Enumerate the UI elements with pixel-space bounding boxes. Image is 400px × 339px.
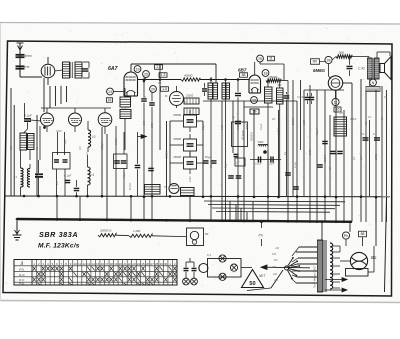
svg-text:0,25µF: 0,25µF bbox=[101, 142, 104, 150]
svg-text:25: 25 bbox=[144, 72, 148, 76]
svg-text:110: 110 bbox=[275, 247, 279, 250]
svg-text:0,1µF: 0,1µF bbox=[24, 114, 32, 118]
svg-text:50000: 50000 bbox=[115, 137, 118, 145]
svg-text:8µF: 8µF bbox=[343, 125, 346, 130]
svg-text:5000: 5000 bbox=[151, 122, 154, 128]
svg-text:25000: 25000 bbox=[324, 154, 327, 163]
svg-text:A.V.C.: A.V.C. bbox=[128, 182, 132, 191]
svg-text:18: 18 bbox=[264, 71, 268, 75]
svg-text:25000: 25000 bbox=[172, 155, 181, 159]
svg-text:17: 17 bbox=[105, 262, 109, 266]
svg-text:76: 76 bbox=[258, 57, 262, 61]
svg-text:0,1µF: 0,1µF bbox=[316, 128, 319, 135]
svg-text:19: 19 bbox=[114, 262, 118, 266]
svg-text:P.O.: P.O. bbox=[19, 267, 25, 271]
svg-text:0,1µF: 0,1µF bbox=[123, 171, 126, 178]
svg-text:aérien: aérien bbox=[23, 54, 32, 58]
svg-text:220: 220 bbox=[272, 273, 278, 276]
svg-text:P.U.: P.U. bbox=[19, 282, 25, 286]
svg-text:4Ω: 4Ω bbox=[272, 118, 275, 121]
svg-text:5000: 5000 bbox=[258, 140, 264, 144]
svg-text:Trafo Westra 50HZ: Trafo Westra 50HZ bbox=[313, 266, 317, 288]
svg-text:50000: 50000 bbox=[237, 122, 240, 130]
svg-text:0,1µm: 0,1µm bbox=[121, 105, 129, 109]
svg-text:350Ω: 350Ω bbox=[375, 154, 378, 160]
svg-text:21: 21 bbox=[123, 262, 127, 266]
svg-text:M.F. 123Kc/s: M.F. 123Kc/s bbox=[38, 243, 80, 250]
svg-text:1,3: 1,3 bbox=[161, 73, 166, 77]
svg-text:1 MΩ: 1 MΩ bbox=[133, 229, 141, 233]
svg-text:N: N bbox=[372, 81, 375, 85]
svg-text:16: 16 bbox=[108, 98, 112, 102]
svg-text:88: 88 bbox=[242, 73, 246, 77]
svg-text:RV: RV bbox=[313, 60, 318, 64]
svg-text:0,1: 0,1 bbox=[284, 151, 287, 155]
svg-text:8µF: 8µF bbox=[360, 155, 363, 160]
svg-text:50µµ: 50µµ bbox=[64, 139, 67, 145]
svg-text:G.O.: G.O. bbox=[19, 273, 26, 277]
svg-text:40000: 40000 bbox=[184, 74, 193, 78]
svg-text:0,1: 0,1 bbox=[353, 156, 356, 160]
svg-text:0,25: 0,25 bbox=[303, 120, 306, 125]
svg-text:1MΩ: 1MΩ bbox=[189, 177, 192, 182]
svg-text:25: 25 bbox=[383, 96, 387, 99]
svg-text:11: 11 bbox=[269, 57, 273, 61]
svg-text:26: 26 bbox=[146, 262, 150, 266]
svg-text:50µµ: 50µµ bbox=[205, 155, 211, 159]
svg-text:0,1µF: 0,1µF bbox=[297, 96, 304, 99]
svg-text:10000: 10000 bbox=[278, 127, 281, 135]
svg-text:0,1µF: 0,1µF bbox=[64, 174, 71, 178]
svg-text:1000: 1000 bbox=[56, 130, 62, 133]
svg-text:0,5µF: 0,5µF bbox=[350, 118, 357, 121]
svg-text:25000: 25000 bbox=[246, 122, 249, 131]
svg-text:200: 200 bbox=[271, 266, 277, 269]
svg-text:11: 11 bbox=[78, 262, 81, 266]
svg-text:5000: 5000 bbox=[309, 149, 312, 155]
svg-text:1µF: 1µF bbox=[335, 150, 338, 155]
svg-text:0,1µF: 0,1µF bbox=[255, 163, 262, 166]
svg-text:29: 29 bbox=[160, 262, 164, 266]
svg-text:28: 28 bbox=[155, 262, 159, 266]
svg-text:200: 200 bbox=[56, 180, 59, 186]
svg-text:0,1: 0,1 bbox=[368, 116, 372, 119]
svg-text:25000: 25000 bbox=[269, 75, 278, 79]
svg-text:27: 27 bbox=[151, 262, 155, 266]
svg-text:NET: NET bbox=[259, 274, 266, 278]
svg-text:6,3: 6,3 bbox=[207, 253, 211, 257]
svg-text:l.0: l.0 bbox=[92, 135, 96, 139]
svg-text:11: 11 bbox=[334, 100, 338, 104]
svg-text:30: 30 bbox=[164, 262, 168, 266]
svg-text:0,1: 0,1 bbox=[373, 132, 377, 136]
svg-text:SBR 383A: SBR 383A bbox=[39, 230, 78, 239]
svg-text:50000Ω: 50000Ω bbox=[251, 132, 254, 141]
svg-text:µF: µF bbox=[237, 161, 240, 165]
svg-text:15: 15 bbox=[252, 98, 256, 102]
svg-text:0,1µF: 0,1µF bbox=[260, 123, 263, 130]
svg-text:18: 18 bbox=[110, 262, 114, 266]
svg-text:20: 20 bbox=[119, 262, 123, 266]
svg-text:1,5: 1,5 bbox=[162, 87, 167, 91]
svg-text:terre: terre bbox=[23, 65, 30, 69]
svg-text:19: 19 bbox=[136, 67, 140, 71]
svg-text:10: 10 bbox=[73, 262, 77, 266]
svg-text:C.42: C.42 bbox=[358, 67, 365, 71]
svg-text:16: 16 bbox=[101, 262, 105, 266]
svg-text:0,1µF: 0,1µF bbox=[268, 163, 275, 166]
svg-text:50µµF: 50µµF bbox=[210, 160, 213, 168]
svg-text:50000: 50000 bbox=[173, 113, 181, 117]
svg-text:50: 50 bbox=[249, 281, 255, 287]
svg-text:500: 500 bbox=[339, 51, 344, 55]
svg-text:145: 145 bbox=[274, 259, 279, 262]
svg-text:λ: λ bbox=[20, 261, 24, 267]
svg-text:3-30: 3-30 bbox=[221, 124, 224, 130]
svg-text:25000: 25000 bbox=[166, 150, 169, 159]
svg-text:14: 14 bbox=[92, 262, 96, 266]
svg-text:12: 12 bbox=[83, 262, 87, 266]
svg-text:100: 100 bbox=[143, 120, 146, 125]
svg-text:25: 25 bbox=[141, 262, 145, 266]
svg-text:24: 24 bbox=[137, 262, 141, 266]
svg-text:s.o.p.: s.o.p. bbox=[294, 162, 297, 168]
svg-text:0,5µF: 0,5µF bbox=[202, 123, 205, 130]
svg-text:20: 20 bbox=[151, 87, 155, 91]
svg-text:4Ω bruin: 4Ω bruin bbox=[242, 130, 245, 140]
svg-text:l.4: l.4 bbox=[91, 173, 95, 177]
svg-text:88: 88 bbox=[361, 232, 365, 236]
svg-text:0,3: 0,3 bbox=[79, 146, 82, 150]
svg-text:13: 13 bbox=[108, 90, 112, 94]
svg-text:23: 23 bbox=[132, 262, 136, 266]
svg-text:6A7: 6A7 bbox=[108, 66, 119, 72]
svg-text:15: 15 bbox=[96, 262, 100, 266]
svg-text:6B7: 6B7 bbox=[238, 68, 247, 73]
svg-text:0,1µF: 0,1µF bbox=[225, 161, 228, 168]
svg-text:50: 50 bbox=[205, 232, 209, 236]
svg-text:22: 22 bbox=[128, 262, 132, 266]
svg-text:75: 75 bbox=[164, 185, 168, 189]
svg-text:245: 245 bbox=[273, 279, 279, 282]
svg-text:Ph: Ph bbox=[344, 234, 348, 238]
svg-text:20: 20 bbox=[339, 112, 343, 115]
svg-text:Ph: Ph bbox=[259, 234, 263, 238]
svg-text:6M6G: 6M6G bbox=[313, 68, 326, 73]
svg-text:13: 13 bbox=[87, 262, 91, 266]
svg-text:0,5: 0,5 bbox=[365, 121, 368, 125]
svg-text:28: 28 bbox=[327, 58, 331, 62]
svg-text:0,5: 0,5 bbox=[10, 146, 13, 150]
svg-text:0,1: 0,1 bbox=[158, 82, 162, 85]
svg-text:125: 125 bbox=[272, 253, 277, 256]
svg-text:0,1: 0,1 bbox=[361, 132, 365, 136]
svg-text:20000 Ω: 20000 Ω bbox=[99, 229, 112, 233]
